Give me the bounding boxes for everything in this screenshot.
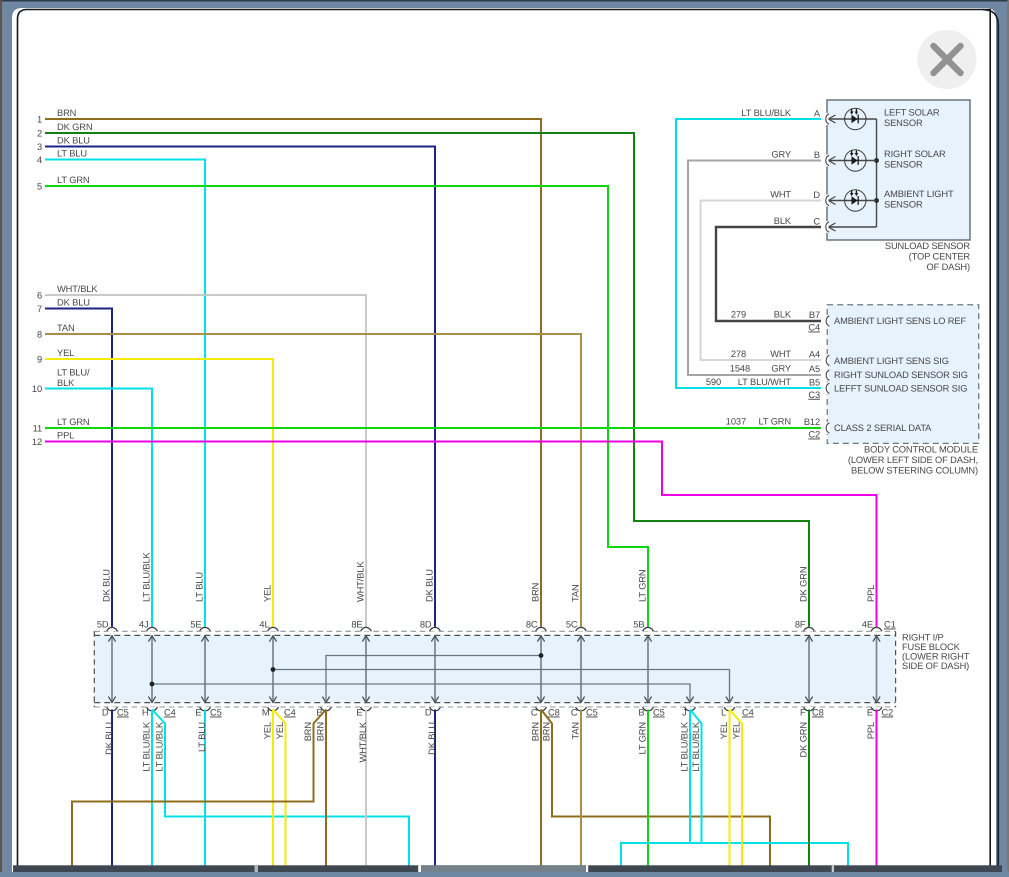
svg-text:8D: 8D	[420, 620, 432, 630]
connector bump top 876.5	[871, 627, 883, 632]
connector bump top 581	[575, 627, 587, 632]
fuse block arrow at 541	[537, 697, 544, 703]
svg-text:LT GRN: LT GRN	[758, 417, 791, 427]
fuse block arrow at 648	[644, 697, 651, 703]
wire BRN below B right	[325, 710, 327, 867]
svg-text:C4: C4	[742, 708, 754, 718]
fuse block arrow at 112	[108, 697, 115, 703]
svg-text:A4: A4	[809, 349, 820, 359]
wire YEL below M/C4 right	[273, 710, 286, 867]
svg-text:DK BLU: DK BLU	[102, 569, 112, 602]
wire 6 WHT/BLK	[45, 295, 366, 629]
svg-text:C5: C5	[653, 708, 665, 718]
fuse block arrow at 205	[201, 697, 208, 703]
svg-text:SENSOR: SENSOR	[884, 160, 923, 170]
wire 9 YEL	[45, 359, 273, 629]
svg-text:(LOWER RIGHT: (LOWER RIGHT	[902, 652, 970, 662]
fuse block arrow at 809	[805, 697, 812, 703]
svg-text:J: J	[682, 708, 687, 718]
svg-text:8F: 8F	[795, 620, 806, 630]
svg-text:1: 1	[37, 115, 42, 125]
wire BRN below C/C8 right	[541, 710, 770, 867]
wire LT BLU/BLK sensor pin A to BCM B5	[676, 119, 821, 388]
pin A sunload sensor	[823, 113, 829, 125]
pin D sunload sensor	[823, 195, 829, 207]
connector bump bottom 326	[320, 707, 332, 712]
svg-text:AMBIENT LIGHT SENS SIG: AMBIENT LIGHT SENS SIG	[834, 356, 949, 366]
connector bump bottom 581	[575, 707, 587, 712]
fuse internal link 4J to J	[152, 684, 690, 702]
connector bump bottom 729.5	[724, 707, 736, 712]
wire PPL below E/C2	[876, 710, 878, 867]
svg-text:BRN: BRN	[316, 722, 326, 741]
connector bump top 648	[642, 627, 654, 632]
close button	[918, 30, 977, 89]
wire LT BLU/BLK below J right	[690, 710, 848, 867]
svg-text:WHT: WHT	[770, 190, 791, 200]
svg-text:WHT/BLK: WHT/BLK	[358, 721, 368, 762]
svg-text:LT BLU/BLK: LT BLU/BLK	[142, 721, 152, 772]
svg-text:LT BLU: LT BLU	[57, 149, 87, 159]
wire WHT sensor pin D to BCM A4	[701, 201, 822, 361]
fuse block path at 273	[272, 636, 274, 703]
svg-text:DK BLU: DK BLU	[427, 722, 437, 755]
wire 5 LT GRN	[45, 186, 648, 629]
svg-text:BRN: BRN	[542, 722, 552, 741]
svg-text:DK BLU: DK BLU	[425, 569, 435, 602]
svg-text:TAN: TAN	[571, 722, 581, 740]
svg-text:M: M	[262, 708, 270, 718]
connector bump top 205	[199, 627, 211, 632]
svg-text:BLK: BLK	[774, 216, 792, 226]
svg-text:WHT: WHT	[770, 349, 791, 359]
svg-text:9: 9	[37, 355, 42, 365]
pin B12 BCM	[823, 422, 829, 434]
connector bump bottom 435	[429, 707, 441, 712]
wire BRN below B left	[72, 710, 326, 867]
wire 2 DK GRN	[45, 133, 809, 629]
right edge strip	[1007, 0, 1009, 872]
modal right shadow	[983, 10, 998, 872]
svg-text:C5: C5	[210, 708, 222, 718]
svg-text:5C: 5C	[566, 620, 578, 630]
wire LT BLU/BLK below H/C4 left	[151, 710, 153, 867]
svg-text:2: 2	[37, 129, 42, 139]
svg-text:YEL: YEL	[732, 722, 742, 739]
svg-text:RIGHT SOLAR: RIGHT SOLAR	[884, 149, 946, 159]
svg-text:B12: B12	[804, 417, 820, 427]
svg-text:11: 11	[33, 424, 42, 434]
svg-text:LT GRN: LT GRN	[57, 417, 90, 427]
photodiode left solar sensor	[828, 108, 876, 129]
svg-text:GRY: GRY	[771, 150, 791, 160]
svg-text:C3: C3	[808, 390, 820, 400]
svg-text:BRN: BRN	[531, 583, 541, 602]
svg-text:BRN: BRN	[57, 108, 76, 118]
svg-text:C8: C8	[812, 708, 824, 718]
svg-text:1037: 1037	[726, 417, 746, 427]
fuse block arrow at 729.5	[726, 697, 733, 703]
wire GRY sensor pin B to BCM A5	[688, 161, 821, 376]
arrow pin C	[828, 223, 835, 231]
wire LT BLU/BLK below H/C4 right	[152, 710, 409, 867]
svg-text:TAN: TAN	[571, 584, 581, 602]
svg-text:LEFT SOLAR: LEFT SOLAR	[884, 108, 940, 118]
connector bump bottom 112	[106, 707, 118, 712]
svg-text:D: D	[425, 708, 432, 718]
svg-text:B7: B7	[809, 310, 820, 320]
svg-text:C5: C5	[117, 708, 129, 718]
pin B5 BCM	[823, 382, 829, 394]
svg-text:TAN: TAN	[57, 323, 75, 333]
svg-text:(LOWER LEFT SIDE OF DASH,: (LOWER LEFT SIDE OF DASH,	[848, 455, 978, 465]
svg-text:1548: 1548	[730, 364, 750, 374]
svg-text:GRY: GRY	[771, 364, 791, 374]
svg-text:LT BLU/WHT: LT BLU/WHT	[738, 377, 792, 387]
connector bump bottom 152	[146, 707, 158, 712]
wire LT GRN below B/C5	[647, 710, 649, 867]
svg-text:5E: 5E	[190, 620, 201, 630]
svg-text:LEFFT SUNLOAD SENSOR SIG: LEFFT SUNLOAD SENSOR SIG	[834, 383, 967, 393]
svg-text:B: B	[638, 708, 644, 718]
svg-text:LT BLU/BLK: LT BLU/BLK	[155, 721, 165, 772]
svg-text:E: E	[867, 708, 873, 718]
fuse block arrow at 876.5	[873, 697, 880, 703]
svg-text:SIDE OF DASH): SIDE OF DASH)	[902, 661, 969, 671]
fuse block arrow at 690	[686, 697, 693, 703]
fuse block path at 152	[151, 636, 153, 703]
wire 4 LT BLU	[45, 160, 205, 630]
connector bump top 435	[429, 627, 441, 632]
svg-text:DK GRN: DK GRN	[57, 122, 92, 132]
fuse internal link 4L to L	[273, 670, 730, 703]
svg-text:6: 6	[37, 291, 42, 301]
fuse block path at 876.5	[876, 636, 878, 703]
svg-text:PPL: PPL	[57, 431, 74, 441]
svg-text:WHT/BLK: WHT/BLK	[57, 284, 98, 294]
fuse block path at 541	[540, 636, 542, 703]
connector bump bottom 809	[803, 707, 815, 712]
connector bump top 273	[267, 627, 279, 632]
connector bump bottom 205	[199, 707, 211, 712]
fuse block path at 435	[434, 636, 436, 703]
svg-text:WHT/BLK: WHT/BLK	[356, 561, 366, 602]
sunload sensor box	[827, 100, 970, 240]
svg-text:DK BLU: DK BLU	[57, 298, 90, 308]
svg-text:C8: C8	[548, 708, 560, 718]
wire YEL below M/C4 left	[272, 710, 274, 867]
svg-text:FUSE BLOCK: FUSE BLOCK	[902, 642, 961, 652]
svg-text:LT BLU: LT BLU	[197, 722, 207, 752]
fuse block arrow at 435	[431, 697, 438, 703]
svg-text:BLK: BLK	[57, 378, 75, 388]
wire BRN below C/C8 left	[540, 710, 542, 867]
svg-text:7: 7	[37, 304, 42, 314]
svg-text:D: D	[102, 708, 109, 718]
svg-text:C4: C4	[284, 708, 296, 718]
svg-text:12: 12	[32, 437, 42, 447]
svg-text:H: H	[142, 708, 149, 718]
photodiode ambient light sensor	[828, 190, 876, 211]
fuse internal link B to 8C	[326, 656, 541, 703]
pin B7 BCM	[823, 315, 829, 327]
svg-text:YEL: YEL	[275, 722, 285, 739]
svg-text:4J: 4J	[139, 620, 149, 630]
pin B sunload sensor	[823, 155, 829, 167]
connector bump top 541	[535, 627, 547, 632]
pin A5 BCM	[823, 369, 829, 381]
wire 10 LT BLU/BLK	[45, 389, 152, 630]
svg-text:C: C	[531, 708, 538, 718]
svg-text:BRN: BRN	[531, 722, 541, 741]
fuse block path at 581	[580, 636, 582, 703]
svg-text:RIGHT I/P: RIGHT I/P	[902, 633, 944, 643]
svg-text:8C: 8C	[526, 620, 538, 630]
svg-text:C4: C4	[808, 323, 820, 333]
svg-text:LT BLU/BLK: LT BLU/BLK	[680, 721, 690, 772]
svg-text:4L: 4L	[259, 620, 269, 630]
svg-text:LT BLU: LT BLU	[195, 572, 205, 602]
wire DK BLU below D/C5	[111, 710, 113, 867]
svg-text:F: F	[800, 708, 806, 718]
pin A4 BCM	[823, 354, 829, 366]
svg-text:BRN: BRN	[303, 722, 313, 741]
svg-text:278: 278	[731, 349, 746, 359]
svg-text:C2: C2	[882, 708, 894, 718]
fuse block path at 205	[204, 636, 206, 703]
svg-text:BELOW STEERING COLUMN): BELOW STEERING COLUMN)	[851, 466, 978, 476]
svg-text:590: 590	[706, 377, 721, 387]
wire 7 DK BLU	[45, 309, 112, 630]
right I/P fuse block	[94, 635, 895, 702]
svg-text:10: 10	[32, 384, 42, 394]
svg-text:PPL: PPL	[866, 722, 876, 739]
svg-text:L: L	[721, 708, 726, 718]
svg-text:YEL: YEL	[719, 722, 729, 739]
svg-text:C: C	[813, 217, 820, 227]
connector bump bottom 273	[267, 707, 279, 712]
svg-text:5D: 5D	[97, 620, 109, 630]
wire DK GRN below F/C8	[808, 710, 810, 867]
svg-text:8E: 8E	[351, 620, 362, 630]
connector bump top 366	[360, 627, 372, 632]
svg-text:C5: C5	[586, 708, 598, 718]
wire 8 TAN	[45, 334, 581, 629]
connector bump top 809	[803, 627, 815, 632]
svg-text:LT BLU/BLK: LT BLU/BLK	[142, 551, 152, 602]
wire DK BLU below D	[434, 710, 436, 867]
connector bump bottom 648	[642, 707, 654, 712]
wire 11 LT GRN	[45, 427, 821, 429]
svg-text:DK GRN: DK GRN	[799, 722, 809, 757]
fuse block path at 648	[647, 636, 649, 703]
sensor internal bus	[876, 119, 878, 227]
svg-text:DK GRN: DK GRN	[799, 567, 809, 602]
wire 3 DK BLU	[45, 147, 435, 630]
svg-text:279: 279	[731, 310, 746, 320]
svg-text:RIGHT SUNLOAD SENSOR SIG: RIGHT SUNLOAD SENSOR SIG	[834, 370, 968, 380]
wire 12 PPL	[45, 442, 877, 630]
connector bump bottom 366	[360, 707, 372, 712]
fuse block arrow at 273	[269, 697, 276, 703]
svg-text:SENSOR: SENSOR	[884, 118, 923, 128]
photodiode right solar sensor	[828, 150, 876, 171]
bottom scrollbar	[13, 865, 1002, 872]
junction dot	[874, 158, 879, 163]
wire YEL below L left	[729, 710, 731, 867]
svg-text:B5: B5	[809, 377, 820, 387]
svg-text:4: 4	[37, 155, 42, 165]
svg-text:E: E	[195, 708, 201, 718]
svg-text:3: 3	[37, 142, 42, 152]
svg-text:PPL: PPL	[866, 585, 876, 602]
svg-text:(TOP CENTER: (TOP CENTER	[909, 252, 971, 262]
svg-text:LT GRN: LT GRN	[57, 175, 90, 185]
svg-text:C: C	[571, 708, 578, 718]
svg-text:A: A	[814, 109, 821, 119]
svg-text:4E: 4E	[862, 620, 873, 630]
wire LT BLU below E/C5	[204, 710, 206, 867]
connector bump bottom 541	[535, 707, 547, 712]
fuse block arrow at 152	[148, 697, 155, 703]
fuse block path at 112	[111, 636, 113, 703]
svg-text:BODY CONTROL MODULE: BODY CONTROL MODULE	[864, 445, 978, 455]
svg-text:AMBIENT LIGHT SENS LO REF: AMBIENT LIGHT SENS LO REF	[834, 316, 966, 326]
svg-text:AMBIENT LIGHT: AMBIENT LIGHT	[884, 189, 954, 199]
svg-text:LT GRN: LT GRN	[638, 569, 648, 602]
svg-text:5B: 5B	[633, 620, 644, 630]
fuse block path at 366	[365, 636, 367, 703]
svg-text:8: 8	[37, 330, 42, 340]
svg-text:YEL: YEL	[263, 585, 273, 602]
svg-text:D: D	[813, 190, 820, 200]
connector bump top 112	[106, 627, 118, 632]
svg-text:LT BLU/: LT BLU/	[57, 368, 90, 378]
wire TAN below C/C5	[580, 710, 582, 867]
wire BLK sensor pin C to BCM B7	[716, 227, 821, 321]
wire LT BLU/BLK below J left	[621, 710, 690, 867]
body control module U-BCM	[827, 305, 979, 444]
svg-text:B: B	[814, 150, 820, 160]
svg-text:C4: C4	[164, 708, 176, 718]
fuse block arrow at 581	[577, 697, 584, 703]
svg-text:YEL: YEL	[57, 348, 74, 358]
fuse block arrow at 366	[362, 697, 369, 703]
fuse block arrow at 326	[322, 697, 329, 703]
junction dot	[874, 198, 879, 203]
svg-text:C2: C2	[808, 430, 820, 440]
svg-text:DK BLU: DK BLU	[57, 136, 90, 146]
svg-text:LT GRN: LT GRN	[638, 722, 648, 755]
svg-text:SUNLOAD SENSOR: SUNLOAD SENSOR	[885, 241, 971, 251]
svg-text:E: E	[356, 708, 362, 718]
svg-text:CLASS 2 SERIAL DATA: CLASS 2 SERIAL DATA	[834, 423, 932, 433]
connector bump bottom 876.5	[871, 707, 883, 712]
svg-text:SENSOR: SENSOR	[884, 200, 923, 210]
svg-text:BLK: BLK	[774, 310, 792, 320]
svg-text:5: 5	[37, 182, 42, 192]
svg-text:LT BLU/BLK: LT BLU/BLK	[741, 108, 792, 118]
svg-text:LT BLU/BLK: LT BLU/BLK	[691, 721, 701, 772]
svg-text:C1: C1	[884, 620, 896, 630]
svg-text:DK BLU: DK BLU	[104, 722, 114, 755]
wire YEL below L right	[730, 710, 743, 867]
wire 1 BRN	[45, 119, 541, 629]
svg-text:YEL: YEL	[263, 722, 273, 739]
svg-text:A5: A5	[809, 364, 820, 374]
connector bump bottom 690	[684, 707, 696, 712]
svg-text:OF DASH): OF DASH)	[927, 262, 970, 272]
connector bump top 152	[146, 627, 158, 632]
wire WHT/BLK below E	[365, 710, 367, 867]
pin C sunload sensor	[823, 221, 829, 233]
fuse block path at 809	[808, 636, 810, 703]
